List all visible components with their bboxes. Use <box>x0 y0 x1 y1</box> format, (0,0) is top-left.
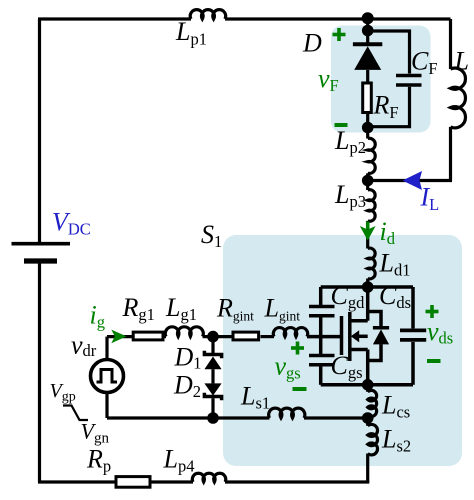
svg-text:D: D <box>302 29 322 58</box>
svg-text:L: L <box>454 47 469 76</box>
